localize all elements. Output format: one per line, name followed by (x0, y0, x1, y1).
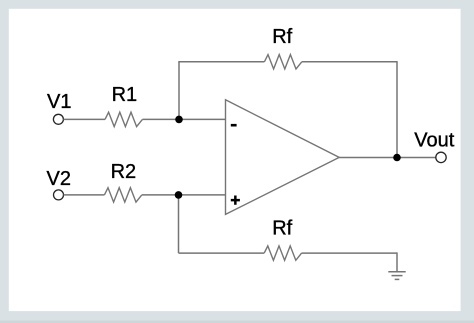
wire feedback right vertical to output node (396, 61, 398, 157)
resistor Rf top feedback (264, 55, 301, 69)
node B junction dot (175, 191, 183, 199)
svg-text:V1: V1 (47, 91, 71, 113)
wire V2 terminal to R2 (64, 194, 105, 196)
wire node A up to top feedback (178, 62, 180, 120)
wire down to ground (396, 252, 398, 271)
wire op-amp output (339, 157, 436, 159)
svg-text:V2: V2 (47, 168, 71, 190)
svg-text:R1: R1 (112, 84, 138, 106)
svg-text:Rf: Rf (272, 218, 292, 240)
wire top feedback left horizontal (178, 61, 264, 63)
node A junction dot (175, 116, 183, 124)
wire R2 to node B (142, 194, 226, 196)
resistor R1 (105, 112, 142, 126)
wire node B down to bottom Rf (178, 195, 180, 253)
node Vout junction dot (393, 154, 401, 162)
wire bottom left horizontal (179, 252, 265, 254)
wire bottom right horizontal (302, 252, 397, 254)
terminal Vout (436, 152, 446, 162)
op-amp inverting input marker - (231, 124, 237, 127)
svg-text:R2: R2 (111, 161, 137, 183)
terminal V2 (54, 190, 64, 200)
wire top feedback right horizontal (302, 61, 397, 63)
op-amp non-inverting input marker + (231, 196, 240, 205)
terminal V1 (53, 114, 63, 124)
svg-text:Rf: Rf (272, 26, 292, 48)
resistor Rf bottom (264, 246, 301, 260)
svg-text:Vout: Vout (414, 130, 454, 152)
resistor R2 (104, 188, 141, 202)
ground (388, 272, 405, 280)
wire V1 terminal to R1 (63, 118, 105, 120)
op-amp U1 (226, 100, 340, 215)
wire R1 to node A (142, 118, 225, 120)
